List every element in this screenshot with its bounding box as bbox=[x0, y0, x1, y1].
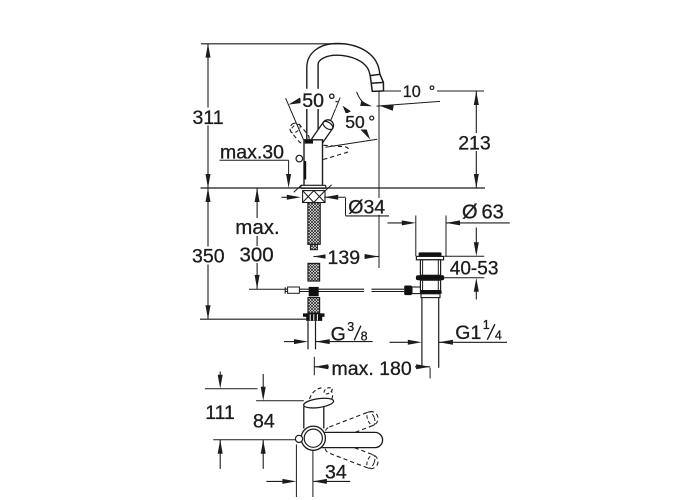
svg-text:°: ° bbox=[429, 83, 435, 101]
svg-text:3: 3 bbox=[347, 320, 354, 334]
svg-text:50 °: 50 ° bbox=[302, 90, 335, 112]
svg-text:max.30: max.30 bbox=[220, 142, 284, 164]
svg-text:350: 350 bbox=[192, 245, 225, 267]
svg-text:311: 311 bbox=[193, 107, 224, 129]
svg-text:50 °: 50 ° bbox=[345, 112, 375, 132]
svg-text:10: 10 bbox=[403, 83, 421, 101]
svg-text:1: 1 bbox=[483, 318, 490, 332]
svg-text:34: 34 bbox=[325, 461, 347, 483]
svg-text:Ø 63: Ø 63 bbox=[462, 202, 504, 224]
svg-text:G: G bbox=[331, 323, 346, 345]
svg-text:max.: max. bbox=[235, 216, 279, 239]
svg-text:40-53: 40-53 bbox=[450, 259, 499, 280]
svg-text:300: 300 bbox=[240, 243, 274, 266]
svg-text:4: 4 bbox=[495, 329, 502, 343]
svg-text:G1: G1 bbox=[455, 322, 481, 344]
svg-text:max. 180: max. 180 bbox=[332, 358, 412, 380]
svg-text:Ø34: Ø34 bbox=[348, 196, 385, 218]
svg-text:139: 139 bbox=[328, 247, 361, 269]
svg-text:8: 8 bbox=[361, 329, 368, 343]
svg-text:213: 213 bbox=[458, 133, 491, 155]
svg-text:84: 84 bbox=[253, 411, 275, 433]
svg-text:111: 111 bbox=[205, 402, 235, 424]
